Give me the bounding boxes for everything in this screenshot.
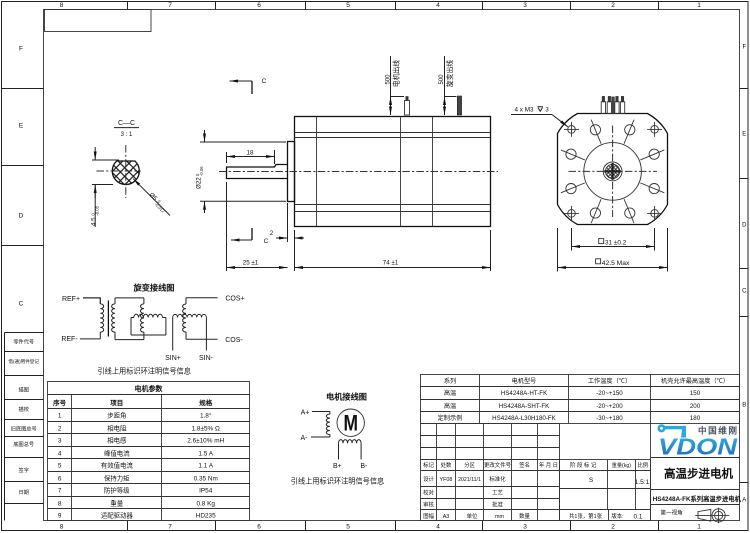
svg-text:25 ±1: 25 ±1 <box>243 260 259 267</box>
svg-text:旋变出线: 旋变出线 <box>445 60 454 87</box>
svg-text:4: 4 <box>58 451 62 458</box>
M3 corner holes <box>564 122 662 221</box>
svg-text:C: C <box>262 78 267 85</box>
pilot boss <box>288 142 295 202</box>
svg-text:B: B <box>742 402 746 408</box>
svg-text:比例: 比例 <box>637 461 648 469</box>
svg-text:2: 2 <box>270 230 274 237</box>
svg-text:-20~+200: -20~+200 <box>596 403 623 410</box>
SIN- label <box>199 355 214 362</box>
svg-text:8: 8 <box>60 2 64 9</box>
svg-text:规格: 规格 <box>199 398 213 407</box>
svg-text:1: 1 <box>697 524 701 531</box>
svg-text:F: F <box>19 45 23 52</box>
svg-text:旋变接线图: 旋变接线图 <box>133 283 175 293</box>
svg-text:150: 150 <box>690 390 701 397</box>
dimension 42.5 Max <box>558 228 668 272</box>
svg-text:C—C: C—C <box>118 120 135 127</box>
transformer core <box>107 301 109 337</box>
connector pins front <box>601 96 625 113</box>
svg-text:重量(kg): 重量(kg) <box>612 461 632 469</box>
svg-text:描图: 描图 <box>19 385 29 393</box>
svg-text:A: A <box>742 497 746 503</box>
svg-text:SIN+: SIN+ <box>165 355 181 362</box>
rotor hole circles <box>566 125 659 218</box>
svg-text:4: 4 <box>436 2 440 9</box>
rotor excitation coil <box>140 298 143 340</box>
product name cell <box>651 424 742 521</box>
svg-text:电机参数: 电机参数 <box>135 384 164 393</box>
svg-text:机壳允许最高温度（℃）: 机壳允许最高温度（℃） <box>661 377 729 385</box>
REF+ label <box>62 296 80 303</box>
svg-text:M: M <box>343 411 358 436</box>
svg-text:工艺: 工艺 <box>492 490 503 497</box>
svg-text:B+: B+ <box>333 463 342 470</box>
svg-text:E: E <box>742 131 746 137</box>
svg-text:分区: 分区 <box>464 461 475 469</box>
svg-text:批准: 批准 <box>492 500 503 508</box>
svg-text:HS4248A-FK系列高温步进电机: HS4248A-FK系列高温步进电机 <box>653 494 742 503</box>
svg-text:项目: 项目 <box>110 398 123 407</box>
svg-text:1.5 A: 1.5 A <box>198 451 213 458</box>
svg-text:防护等级: 防护等级 <box>104 486 130 495</box>
svg-text:C: C <box>19 300 24 307</box>
svg-text:共1张，第1张: 共1张，第1张 <box>569 512 603 520</box>
motor circle M <box>337 409 364 436</box>
svg-text:4: 4 <box>436 524 440 531</box>
revision box top-left <box>45 10 152 32</box>
transformer T1 secondary coil <box>112 298 144 340</box>
SIN stator coil <box>173 314 207 350</box>
section C-C centerlines <box>97 145 142 198</box>
A- label <box>301 435 309 442</box>
svg-text:VDON: VDON <box>658 434 737 460</box>
svg-text:底图总号: 底图总号 <box>13 440 34 448</box>
motor parameter table <box>48 382 250 521</box>
label 4xM3 depth 3 <box>511 107 568 127</box>
title block signature table <box>421 424 560 521</box>
svg-text:C: C <box>742 288 747 294</box>
svg-text:借(通)用件登记: 借(通)用件登记 <box>8 358 39 365</box>
svg-text:180: 180 <box>690 415 701 422</box>
svg-text:S: S <box>589 477 594 484</box>
svg-text:-30~+180: -30~+180 <box>596 415 623 422</box>
phase B coil <box>339 440 362 460</box>
COS- label <box>225 337 243 344</box>
svg-text:-20~+150: -20~+150 <box>596 390 623 397</box>
zone letter column left <box>2 45 44 307</box>
section C-C shaft circle with flat and hatching <box>112 158 139 185</box>
svg-text:5: 5 <box>58 463 62 470</box>
svg-text:数量: 数量 <box>519 512 530 520</box>
svg-text:保持力矩: 保持力矩 <box>104 474 130 483</box>
svg-text:HS4248A-L30H180-FK: HS4248A-L30H180-FK <box>492 415 557 422</box>
svg-text:1.8±5% Ω: 1.8±5% Ω <box>192 426 220 433</box>
svg-text:6: 6 <box>257 524 261 531</box>
dimension 31 hole spacing <box>572 228 655 251</box>
dimension 500 motor lead <box>385 56 404 115</box>
title block stage section <box>560 460 651 521</box>
svg-text:1.8°: 1.8° <box>200 412 212 420</box>
B+ label <box>333 463 342 470</box>
svg-text:中国维刚: 中国维刚 <box>698 425 737 436</box>
svg-text:1: 1 <box>697 2 701 9</box>
transformer T1 primary coil <box>80 298 104 339</box>
svg-text:31 ±0.2: 31 ±0.2 <box>605 240 627 247</box>
dimension 18 shaft flat length <box>227 149 275 164</box>
pilot circle front <box>584 143 642 201</box>
svg-text:IP54: IP54 <box>199 488 213 495</box>
section cut mark C top <box>230 78 267 94</box>
svg-text:6: 6 <box>257 2 261 9</box>
svg-text:4 x M3: 4 x M3 <box>515 107 534 114</box>
svg-text:74 ±1: 74 ±1 <box>383 260 399 267</box>
svg-text:REF+: REF+ <box>62 296 80 303</box>
COS stator coil <box>183 298 218 340</box>
dimension 2 boss thickness <box>270 203 304 242</box>
svg-text:5: 5 <box>346 524 350 531</box>
first angle projection symbol <box>695 508 729 524</box>
front view centerlines <box>569 126 658 218</box>
svg-text:2.6±10% mH: 2.6±10% mH <box>187 438 224 445</box>
svg-text:版本:: 版本: <box>611 512 623 520</box>
phase A coil <box>311 412 330 438</box>
svg-text:500: 500 <box>385 74 391 85</box>
svg-text:3 : 1: 3 : 1 <box>121 132 133 138</box>
svg-text:零件代号: 零件代号 <box>13 337 34 345</box>
svg-text:F: F <box>742 44 746 50</box>
svg-text:电机出线: 电机出线 <box>392 60 401 87</box>
svg-text:峰值电流: 峰值电流 <box>104 449 130 458</box>
svg-text:-0.05: -0.05 <box>94 205 99 215</box>
svg-text:8: 8 <box>60 524 64 531</box>
motor wiring title <box>326 391 367 401</box>
section cut mark C bottom <box>231 228 269 245</box>
REF- label <box>61 336 78 343</box>
rotor output winding loop <box>131 314 166 335</box>
svg-text:高温: 高温 <box>444 389 456 397</box>
svg-text:签字: 签字 <box>19 466 29 474</box>
svg-text:序号: 序号 <box>52 398 67 407</box>
svg-text:HS4248A-SHT-FK: HS4248A-SHT-FK <box>499 403 550 410</box>
svg-text:审核: 审核 <box>423 500 434 508</box>
dimension 74 body length <box>295 230 491 271</box>
svg-text:引线上用标识环注明信号信息: 引线上用标识环注明信号信息 <box>97 366 190 375</box>
resolver diagram title <box>133 283 175 293</box>
svg-text:4.5: 4.5 <box>91 217 98 226</box>
zone letter column right <box>740 44 749 503</box>
A+ label <box>301 409 310 416</box>
left margin field boxes <box>5 333 44 521</box>
wiring note <box>291 476 384 485</box>
dimension 500 resolver lead <box>439 56 457 115</box>
svg-text:阶 段 标 记: 阶 段 标 记 <box>570 461 597 469</box>
svg-text:电机接线图: 电机接线图 <box>326 391 367 401</box>
svg-text:8: 8 <box>58 501 62 508</box>
svg-text:COS-: COS- <box>225 337 243 344</box>
zone number row top <box>60 2 702 10</box>
svg-text:C: C <box>264 238 269 245</box>
svg-text:1.1 A: 1.1 A <box>198 463 213 470</box>
svg-text:2021/11/1: 2021/11/1 <box>458 477 481 483</box>
svg-text:REF-: REF- <box>61 336 78 343</box>
svg-text:D: D <box>19 212 24 219</box>
svg-text:6: 6 <box>58 476 62 483</box>
svg-text:工作温度（℃）: 工作温度（℃） <box>588 377 631 385</box>
svg-text:描校: 描校 <box>19 405 29 413</box>
svg-text:3: 3 <box>58 438 62 445</box>
B- label <box>360 463 368 470</box>
svg-text:2: 2 <box>611 2 615 9</box>
svg-text:3: 3 <box>523 524 527 531</box>
svg-text:3: 3 <box>545 107 549 114</box>
dimension 4.5 shaft flat <box>90 147 119 227</box>
resolver note <box>97 366 190 375</box>
svg-text:图幅: 图幅 <box>423 512 434 520</box>
svg-text:标记: 标记 <box>423 461 434 469</box>
svg-text:18: 18 <box>247 149 254 156</box>
svg-text:9: 9 <box>58 513 62 520</box>
shaft section center <box>603 162 622 181</box>
section C-C label <box>114 120 139 138</box>
svg-text:高温: 高温 <box>444 402 456 410</box>
svg-text:引线上用标识环注明信号信息: 引线上用标识环注明信号信息 <box>291 476 384 485</box>
resolver lead wire <box>457 96 461 115</box>
svg-text:A-: A- <box>301 435 309 442</box>
shaft centerline <box>219 171 498 173</box>
SIN+ label <box>165 355 181 362</box>
svg-text:系列: 系列 <box>444 377 456 385</box>
front view flange outline <box>558 114 668 225</box>
svg-text:单位: 单位 <box>467 512 478 520</box>
svg-text:电机型号: 电机型号 <box>512 377 537 385</box>
svg-text:HS4248A-HT-FK: HS4248A-HT-FK <box>501 390 548 397</box>
svg-text:1.5:1: 1.5:1 <box>635 479 650 486</box>
svg-text:2: 2 <box>611 524 615 531</box>
series table <box>421 375 740 424</box>
svg-text:校对: 校对 <box>423 489 434 497</box>
dimension dia22 boss <box>195 130 286 213</box>
svg-text:处数: 处数 <box>441 461 452 469</box>
svg-text:D: D <box>742 222 747 228</box>
svg-text:步距角: 步距角 <box>107 411 126 420</box>
svg-text:相电感: 相电感 <box>107 436 127 445</box>
svg-text:3: 3 <box>523 2 527 9</box>
svg-text:0.35 Nm: 0.35 Nm <box>194 476 218 483</box>
svg-text:适配驱动器: 适配驱动器 <box>101 511 134 520</box>
svg-text:COS+: COS+ <box>225 296 244 303</box>
COS+ label <box>225 296 244 303</box>
svg-text:5: 5 <box>346 2 350 9</box>
svg-text:更改文件号: 更改文件号 <box>484 461 512 469</box>
svg-text:7: 7 <box>168 2 172 9</box>
dimension 25 shaft length <box>227 182 288 271</box>
svg-text:-0.06: -0.06 <box>199 166 204 176</box>
svg-text:B-: B- <box>360 463 368 470</box>
zone number row bottom <box>60 521 702 531</box>
svg-text:7: 7 <box>168 524 172 531</box>
svg-text:mm: mm <box>495 514 504 520</box>
company logo <box>657 424 737 459</box>
svg-text:42.5 Max: 42.5 Max <box>602 260 630 267</box>
svg-text:日期: 日期 <box>19 489 29 496</box>
svg-text:E: E <box>19 122 24 129</box>
rotor spokes <box>561 120 664 223</box>
dimension dia5 leader <box>133 179 170 216</box>
shaft with flat <box>227 165 288 179</box>
svg-text:高温步进电机: 高温步进电机 <box>664 467 733 481</box>
svg-text:SIN-: SIN- <box>199 355 214 362</box>
svg-text:定制示例: 定制示例 <box>438 414 463 422</box>
svg-text:旧底图总号: 旧底图总号 <box>11 425 37 433</box>
svg-text:有效值电流: 有效值电流 <box>101 461 134 470</box>
svg-text:YF08: YF08 <box>440 477 453 483</box>
svg-text:7: 7 <box>58 488 62 495</box>
svg-text:Ø22: Ø22 <box>196 177 203 189</box>
svg-text:0.1: 0.1 <box>634 513 643 520</box>
svg-text:相电阻: 相电阻 <box>107 424 127 433</box>
svg-text:标准化: 标准化 <box>489 475 506 483</box>
svg-text:设计: 设计 <box>423 475 434 483</box>
svg-text:0.8 Kg: 0.8 Kg <box>196 501 215 508</box>
svg-text:年 月 日: 年 月 日 <box>539 461 558 469</box>
svg-text:HD235: HD235 <box>196 513 216 520</box>
svg-text:A+: A+ <box>301 409 310 416</box>
svg-text:2: 2 <box>58 426 62 433</box>
svg-text:500: 500 <box>439 74 445 85</box>
motor lead wire <box>405 96 410 115</box>
svg-text:签名: 签名 <box>519 461 530 469</box>
svg-text:重量: 重量 <box>110 500 123 508</box>
svg-text:第一视角: 第一视角 <box>660 509 682 517</box>
svg-text:A3: A3 <box>443 514 450 520</box>
svg-text:1: 1 <box>58 413 62 420</box>
motor body side view <box>295 117 491 227</box>
svg-text:200: 200 <box>690 403 701 410</box>
